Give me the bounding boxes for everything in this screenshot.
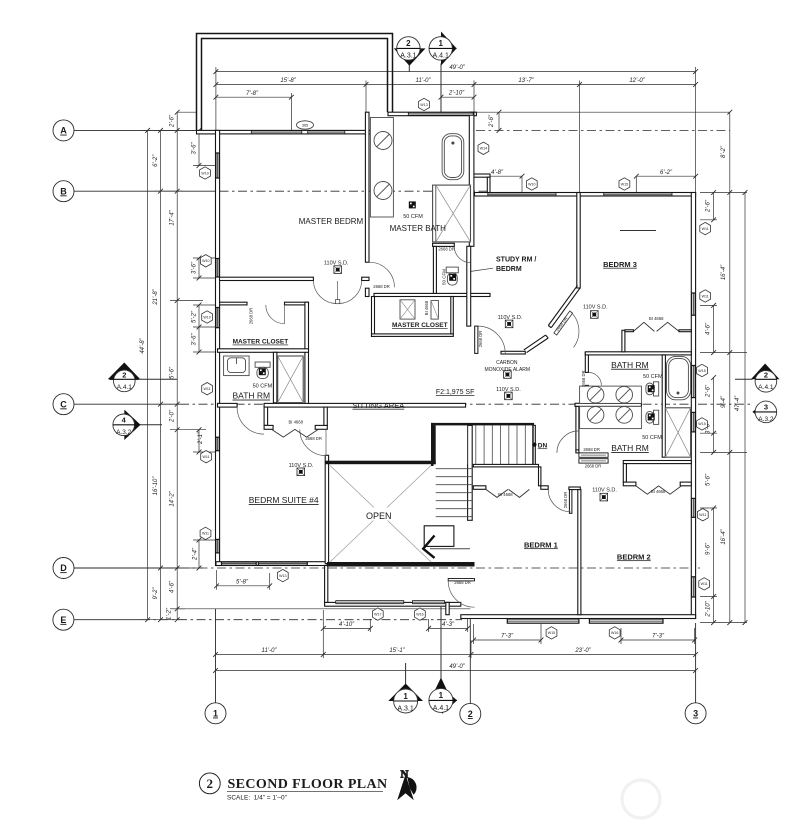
bottom extensions [322, 610, 324, 658]
svg-text:W11: W11 [699, 513, 706, 517]
hall south wall below study [501, 351, 525, 354]
svg-text:14’-2”: 14’-2” [170, 490, 176, 506]
svg-text:W16: W16 [416, 612, 423, 616]
master bedrm double door [313, 281, 361, 304]
svg-text:W13: W13 [279, 574, 286, 578]
svg-text:MONOXIDE ALARM: MONOXIDE ALARM [485, 367, 531, 373]
svg-text:BEDRM 3: BEDRM 3 [603, 260, 637, 269]
svg-text:BATH RM: BATH RM [611, 360, 649, 370]
master bathtub [442, 134, 464, 180]
node B bubble [53, 181, 74, 202]
svg-text:W11: W11 [701, 582, 708, 586]
node C bubble [53, 394, 74, 415]
master bath west wall [365, 112, 369, 262]
diagonal wall study/bedrm3 [524, 285, 580, 352]
svg-text:1: 1 [403, 692, 408, 701]
faint watermark circle [622, 780, 660, 818]
master closet center bottom wall [372, 334, 454, 337]
stair direction arrow [430, 548, 470, 550]
svg-text:SECOND FLOOR PLAN: SECOND FLOOR PLAN [228, 777, 388, 792]
svg-text:2: 2 [122, 371, 126, 380]
left bath shower [278, 356, 304, 403]
svg-text:2’-10”: 2’-10” [706, 600, 712, 617]
svg-text:9’-6”: 9’-6” [706, 542, 712, 555]
svg-text:6’-2”: 6’-2” [660, 170, 673, 176]
window [216, 437, 219, 451]
GROUP: walls [197, 34, 696, 624]
svg-text:3’-6”: 3’-6” [192, 261, 198, 274]
window [692, 577, 696, 597]
bath upper west wall n [585, 352, 588, 372]
dim line 5-8 [217, 585, 270, 587]
grid line C [74, 403, 180, 405]
master shower [433, 185, 471, 242]
svg-text:4’-6”: 4’-6” [706, 322, 712, 335]
bedrm2 closet left wall [623, 464, 626, 483]
GROUP: dimension text [140, 65, 741, 670]
GROUP: fixtures [224, 118, 691, 563]
window [336, 601, 404, 604]
svg-text:W10: W10 [203, 315, 210, 319]
suite4 hall door [237, 407, 264, 434]
svg-text:2: 2 [468, 709, 473, 719]
left master closet door [284, 305, 286, 324]
window [692, 498, 696, 517]
svg-text:2’-6”: 2’-6” [489, 114, 495, 128]
window tag W10 [202, 311, 213, 323]
svg-text:47’-4”: 47’-4” [735, 395, 741, 411]
bath lower fan [648, 413, 655, 420]
left bath fan [259, 368, 266, 375]
left closet/bath divider wall [218, 349, 309, 353]
svg-text:50 CFM: 50 CFM [441, 269, 446, 285]
svg-text:BEDRM 1: BEDRM 1 [524, 540, 558, 549]
svg-text:4’-8”: 4’-8” [491, 170, 504, 176]
svg-text:50 CFM: 50 CFM [642, 435, 662, 441]
window tag W11 [699, 578, 710, 590]
svg-text:CARBON: CARBON [496, 360, 518, 366]
left bath shower divider [273, 352, 277, 403]
svg-text:16’-4”: 16’-4” [721, 528, 727, 544]
left dim line level3 [176, 112, 178, 620]
bedrm1 door jamb wall [569, 487, 580, 490]
svg-text:4’-3”: 4’-3” [442, 622, 455, 628]
master closet/WC north wall [374, 293, 490, 296]
window [216, 153, 219, 178]
bath pocket doors [579, 453, 608, 457]
svg-text:110V S.D.: 110V S.D. [496, 387, 521, 393]
window tag W10 [526, 178, 537, 190]
svg-text:2’-10”: 2’-10” [448, 91, 465, 97]
master bath door [369, 262, 394, 287]
svg-text:50 CFM: 50 CFM [403, 214, 423, 220]
right dim line 47-4 [744, 193, 746, 623]
svg-text:MASTER CLOSET: MASTER CLOSET [392, 322, 448, 329]
bedrm2 closet front left return [623, 482, 636, 486]
window [222, 562, 257, 565]
node 1 bubble [205, 703, 226, 724]
exterior wall grid A (master bedrm north) [197, 130, 393, 134]
top dim extension lines [215, 67, 217, 130]
svg-text:W11: W11 [204, 387, 211, 391]
svg-text:11’-0”: 11’-0” [262, 648, 278, 654]
section marker 4/A.3.2 left [124, 410, 140, 440]
svg-text:110V S.D.: 110V S.D. [583, 304, 608, 310]
svg-text:1: 1 [439, 691, 444, 700]
svg-text:12’-0”: 12’-0” [629, 78, 645, 84]
svg-text:44’-8”: 44’-8” [140, 337, 146, 353]
svg-text:15’-8”: 15’-8” [280, 78, 296, 84]
smoke detector symbol [600, 493, 608, 501]
svg-text:A.4.1: A.4.1 [117, 384, 133, 391]
svg-text:1: 1 [213, 709, 218, 719]
right dim stubs [700, 192, 747, 194]
window [507, 619, 579, 623]
right dim line level2 [729, 112, 731, 622]
svg-text:7’-8”: 7’-8” [246, 91, 259, 97]
window tag W13 [419, 98, 430, 110]
bedrm1 closet front left [473, 486, 486, 490]
bath upper toilet [654, 382, 659, 396]
fan box master bath [409, 201, 416, 208]
bedrm1 closet back wall [473, 464, 538, 467]
window [408, 113, 473, 116]
bedrm1/2 south wall [461, 615, 696, 619]
bedrm1 closet bifold doors [486, 489, 530, 497]
bedrm3 west wall [577, 193, 580, 289]
svg-text:16’-4”: 16’-4” [721, 264, 727, 280]
south wall open+stairs (thick) [327, 562, 475, 567]
grid bubble letters [60, 126, 698, 720]
svg-text:50 CFM: 50 CFM [253, 383, 273, 389]
svg-text:2668 DR: 2668 DR [249, 308, 254, 325]
smoke detector symbol [591, 311, 599, 319]
svg-text:F2:1,975 SF: F2:1,975 SF [436, 389, 475, 396]
smoke detector symbol [504, 371, 512, 379]
keynote bubble 365 [297, 121, 314, 129]
stair upper flight treads [468, 425, 534, 464]
svg-text:W15: W15 [698, 369, 705, 373]
dim line top level2 [216, 84, 696, 86]
svg-text:1’-2”: 1’-2” [167, 607, 173, 620]
window tag W17 [372, 608, 383, 620]
dim line 4-8 [473, 175, 522, 177]
smoke detector symbol [334, 266, 342, 274]
window tag W10 [200, 167, 211, 179]
south facade step west [325, 566, 328, 603]
svg-text:2: 2 [406, 39, 411, 48]
bath lower shower [665, 408, 690, 457]
center south wall [325, 602, 461, 606]
dimension tick slashes [145, 69, 747, 673]
open area west wall [325, 455, 328, 563]
window [488, 193, 556, 196]
open area X brace [330, 466, 431, 563]
stair north wall (thick) [431, 423, 534, 426]
svg-text:MASTER BEDRM: MASTER BEDRM [299, 217, 364, 226]
svg-text:49’-0”: 49’-0” [449, 65, 465, 71]
section marker 2/A.3.1 top [394, 48, 426, 65]
bedrm3 closet jamb w [625, 330, 634, 332]
svg-text:C: C [60, 399, 67, 409]
GROUP: grid bubbles and grid lines [53, 120, 750, 725]
GROUP: dimension framework [109, 63, 752, 687]
window tag W15 [697, 364, 708, 376]
bath lower toilet [654, 410, 659, 424]
svg-text:2668 DR: 2668 DR [555, 316, 569, 332]
svg-text:2668 DR: 2668 DR [305, 436, 322, 441]
window [251, 131, 301, 134]
svg-text:110V S.D.: 110V S.D. [498, 315, 523, 321]
bath/bedrm3 jog wall vertical [487, 177, 490, 192]
window tag W15 [619, 178, 630, 190]
svg-text:21’-8”: 21’-8” [153, 288, 159, 305]
window tag W14 [478, 142, 489, 154]
open area north wall (thick) [325, 461, 436, 465]
svg-text:110V S.D.: 110V S.D. [592, 488, 617, 494]
svg-text:BATH RM: BATH RM [611, 443, 649, 453]
svg-text:8’-2”: 8’-2” [721, 145, 727, 158]
room label OPEN [361, 508, 397, 521]
bath upper north wall [585, 352, 691, 355]
svg-text:W15: W15 [698, 422, 705, 426]
WC west wall [433, 246, 436, 293]
section line 4-A.3.2 stub [141, 424, 163, 426]
bath upper west door [588, 372, 601, 385]
bedrm1/bedrm2 divider wall [578, 490, 581, 615]
svg-text:2’-4”: 2’-4” [193, 547, 199, 561]
bedrm3 closet jamb e [679, 330, 691, 332]
stair landing box [424, 526, 454, 547]
window tag W11 [200, 527, 211, 539]
dim line 4-3 [429, 627, 468, 629]
smoke detector symbol [297, 468, 305, 476]
window tag W15 [697, 418, 708, 430]
suite closet front left return [264, 425, 273, 429]
suite closet right wall [324, 407, 327, 425]
svg-text:50 CFM: 50 CFM [643, 374, 663, 380]
svg-text:MASTER BATH: MASTER BATH [390, 224, 447, 233]
svg-text:2668 DR: 2668 DR [478, 331, 483, 348]
bedrm1 door [569, 490, 572, 514]
svg-text:11’-0”: 11’-0” [416, 78, 432, 84]
svg-text:A.4.1: A.4.1 [433, 52, 449, 59]
dim line bottom level2 [216, 654, 696, 656]
stair west wall (thick) [431, 423, 434, 466]
bedrm1 closet front right [541, 486, 548, 490]
suite closet left wall [264, 407, 268, 425]
svg-text:9’-2”: 9’-2” [153, 587, 159, 600]
master bath east wall [469, 112, 474, 246]
window tag W11 [700, 222, 711, 234]
svg-text:6’-2”: 6’-2” [153, 154, 159, 167]
master bedrm south wall west segment [220, 277, 314, 280]
window [692, 293, 696, 315]
svg-text:B: B [60, 186, 67, 196]
DN dot [532, 443, 536, 447]
window [216, 539, 219, 553]
svg-text:2’-6”: 2’-6” [706, 384, 712, 398]
svg-text:1: 1 [438, 39, 443, 48]
left bath east wall [305, 302, 309, 407]
bath lower wall stub [576, 450, 579, 453]
svg-text:BATH RM: BATH RM [232, 391, 270, 401]
svg-text:17’-4”: 17’-4” [170, 209, 176, 225]
svg-text:A.3.1: A.3.1 [400, 52, 416, 59]
grid line 2 [469, 619, 471, 703]
stair exit door [448, 579, 474, 581]
window tag W16 [609, 627, 620, 639]
window tag W13 [277, 569, 288, 581]
svg-text:7’-3”: 7’-3” [652, 634, 665, 640]
bath lower hall door arc [557, 431, 579, 453]
dim line 49-0 bottom [216, 670, 696, 672]
master bath north wall [388, 112, 476, 116]
grid line 3 [695, 623, 697, 703]
svg-text:3’-6”: 3’-6” [192, 333, 198, 346]
svg-text:A.3.1: A.3.1 [397, 705, 413, 712]
svg-text:A.4.1: A.4.1 [758, 384, 774, 391]
svg-text:W17: W17 [374, 612, 381, 616]
section marker 1/A.4.1 bottom [435, 678, 448, 692]
svg-text:E: E [60, 615, 66, 625]
suite closet front right return [315, 425, 327, 429]
dim line 49-0 top [216, 71, 696, 73]
wall below master shower [433, 243, 455, 246]
section marker 2/A.4.1 left [108, 363, 141, 380]
svg-text:W10: W10 [528, 182, 535, 186]
suite4 south wall [216, 562, 327, 566]
window [216, 308, 219, 328]
svg-text:BI 4668: BI 4668 [649, 316, 664, 321]
svg-text:2’-6”: 2’-6” [170, 114, 176, 128]
node E bubble [53, 609, 74, 630]
svg-text:2: 2 [764, 371, 768, 380]
smoke detector symbol [505, 320, 513, 328]
svg-text:23’-0”: 23’-0” [574, 648, 591, 654]
svg-text:5’-8”: 5’-8” [236, 580, 249, 586]
svg-text:W15: W15 [621, 182, 628, 186]
master WC door [454, 246, 470, 262]
GROUP: room labels [232, 214, 666, 585]
grid line A [74, 129, 197, 131]
window [216, 259, 219, 278]
svg-text:2668 DR: 2668 DR [563, 492, 568, 509]
GROUP: title block [199, 769, 660, 819]
window [258, 562, 307, 565]
left dim line 44-8 [147, 130, 149, 619]
bath upper west wall s [585, 385, 588, 403]
window tag W10 [200, 255, 211, 267]
svg-text:SCALE: 1/4” = 1’–0”: SCALE: 1/4” = 1’–0” [227, 795, 287, 802]
svg-text:2’-0”: 2’-0” [170, 409, 176, 423]
bedrm3 diagonal door [554, 311, 573, 335]
suite4 closet bifold doors [272, 429, 319, 437]
svg-text:9’-4”: 9’-4” [721, 395, 727, 408]
svg-text:SITTING AREA: SITTING AREA [353, 401, 405, 410]
window tag W11 [201, 451, 212, 463]
wall stub below bath door [365, 288, 369, 296]
master closet center right wall [451, 297, 454, 334]
master closet shelf 1 [400, 300, 415, 319]
dim line 6-2 [636, 175, 695, 177]
bedrm3 ceiling break line [620, 230, 656, 232]
smoke detector symbol [505, 392, 513, 400]
bath lower counter + sinks [580, 406, 642, 428]
svg-text:2668 DR: 2668 DR [373, 284, 390, 289]
section line 2-A.3.1 stub [408, 63, 410, 71]
bedrm2 closet back wall [623, 461, 691, 464]
GROUP: doors [237, 246, 681, 607]
bedrm1 closet right wall [539, 467, 541, 486]
svg-text:BI 4668: BI 4668 [424, 300, 429, 315]
grid line 1 [215, 609, 217, 703]
svg-text:7’-3”: 7’-3” [501, 634, 514, 640]
window tag W11 [202, 383, 213, 395]
svg-text:A.4.1: A.4.1 [433, 705, 449, 712]
svg-text:W14: W14 [480, 147, 487, 151]
svg-text:W15: W15 [548, 631, 555, 635]
window [589, 619, 663, 623]
svg-text:W11: W11 [702, 227, 709, 231]
svg-text:A: A [60, 126, 67, 136]
svg-text:D: D [60, 563, 67, 573]
master bath vanity counter [370, 118, 393, 218]
svg-text:3: 3 [764, 403, 768, 412]
bedrm3 north wall [475, 193, 696, 197]
toilet master WC [446, 267, 458, 273]
svg-text:BEDRM 2: BEDRM 2 [617, 552, 651, 561]
stair lower flight treads [436, 469, 473, 517]
svg-text:2668 DR: 2668 DR [454, 580, 471, 585]
master bedrm south wall east segment [362, 277, 369, 280]
svg-text:W16: W16 [611, 631, 618, 635]
window tag W15 [546, 627, 557, 639]
left bath toilet [255, 362, 270, 367]
sitting south wall w2 [264, 403, 466, 407]
grid line E [74, 619, 141, 621]
right dim inner segments [713, 193, 715, 220]
bedrm2 closet front right return [680, 482, 691, 486]
south facade step east [446, 602, 449, 614]
svg-text:5’-6”: 5’-6” [170, 366, 176, 379]
svg-text:BI 4668: BI 4668 [651, 489, 666, 494]
master closet center left wall [372, 297, 375, 337]
grid line D [74, 567, 180, 569]
dim line 4-10 [323, 627, 370, 629]
section marker 2/A.4.1 right [751, 364, 780, 380]
svg-text:A.3.2: A.3.2 [758, 416, 774, 423]
window [692, 412, 696, 432]
bedrm3 closet left wall [622, 330, 625, 352]
title detail bubble [199, 773, 220, 794]
svg-text:2: 2 [207, 776, 214, 791]
bedrm3 closet bifold doors [633, 322, 679, 331]
section line 1-A.4.1 vertical [440, 63, 442, 112]
sink 1 [374, 132, 392, 150]
svg-text:110V S.D.: 110V S.D. [289, 463, 314, 469]
left small dim segments [198, 130, 200, 165]
master closet shelf 2 [431, 301, 438, 320]
window [308, 131, 345, 134]
svg-text:3’-6”: 3’-6” [192, 142, 198, 155]
svg-text:4’-10”: 4’-10” [339, 622, 355, 628]
fan box master WC [449, 274, 456, 281]
left dim stubs [141, 129, 203, 131]
svg-text:2668 DR: 2668 DR [585, 463, 602, 468]
svg-text:365: 365 [302, 124, 308, 128]
bath upper fan [648, 385, 655, 392]
